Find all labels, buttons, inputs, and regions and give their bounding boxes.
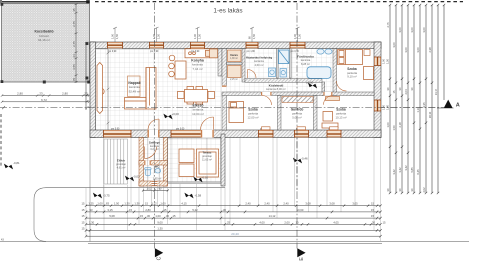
level marker -0,75 <box>93 193 110 199</box>
svg-text:15: 15 <box>371 202 374 206</box>
party wall door opening <box>222 86 227 94</box>
svg-text:4,05: 4,05 <box>333 220 339 224</box>
svg-text:2,02: 2,02 <box>422 187 426 193</box>
svg-text:1,30: 1,30 <box>124 202 130 206</box>
svg-text:83: 83 <box>106 202 109 206</box>
svg-text:30: 30 <box>166 214 169 218</box>
svg-text:15: 15 <box>383 220 386 224</box>
svg-text:2,80: 2,80 <box>17 92 23 96</box>
bed top-right room <box>338 50 363 65</box>
svg-text:24: 24 <box>72 54 76 58</box>
svg-text:9,00: 9,00 <box>157 220 163 224</box>
bottom dim row R4 <box>82 220 386 225</box>
svg-text:Előtér: Előtér <box>117 159 126 163</box>
svg-text:kerámia 8,00 m²: kerámia 8,00 m² <box>266 87 286 91</box>
bottom dim row R6 grand total 20,40 <box>85 232 382 237</box>
svg-text:2,02: 2,02 <box>147 188 152 191</box>
svg-text:-0,02: -0,02 <box>133 175 140 179</box>
room label: Konyha <box>191 59 204 71</box>
terrace border <box>168 138 222 182</box>
svg-text:1,50: 1,50 <box>114 202 120 206</box>
interior wall: corridor bottom long <box>222 92 374 96</box>
svg-text:2,38: 2,38 <box>428 47 432 53</box>
window south wall S3 <box>259 130 274 138</box>
svg-text:3,55: 3,55 <box>72 64 76 70</box>
room label: Kondicionalo <box>297 55 314 66</box>
right dim column labels (rotated) <box>386 22 438 193</box>
svg-text:1,00: 1,00 <box>382 58 386 64</box>
svg-text:2,40: 2,40 <box>245 202 251 206</box>
top dashed utility line <box>95 1 463 3</box>
window axis tick W3 <box>193 27 201 42</box>
svg-text:15: 15 <box>140 214 143 218</box>
bath sinks <box>317 49 332 54</box>
terrace table <box>197 149 219 177</box>
window top wall W5 <box>290 42 305 49</box>
entrance deck stripes <box>104 139 128 184</box>
dimension row below carport (2,80 / 23 / 2,80 / 23) <box>1 92 90 104</box>
svg-text:1,00: 1,00 <box>193 33 197 39</box>
section line C vertical dash-dot <box>154 3 156 249</box>
svg-text:4,15: 4,15 <box>181 202 187 206</box>
interior wall: bedroom divider 1 <box>278 96 282 131</box>
window axis tick W4 <box>248 27 256 42</box>
carport post bottom-left <box>1 80 4 83</box>
interior wall: kitchen right <box>218 49 222 77</box>
svg-text:14,12: 14,12 <box>269 214 276 218</box>
bed bottom room 1 <box>229 102 244 123</box>
floor tile: wc <box>144 165 164 181</box>
window top wall W1 <box>108 42 123 49</box>
svg-text:13,17: 13,17 <box>434 88 438 95</box>
svg-text:6,45: 6,45 <box>416 169 420 175</box>
svg-text:93: 93 <box>90 208 93 212</box>
bedroom door arc (top right) <box>337 81 347 91</box>
svg-text:3,00: 3,00 <box>416 47 420 53</box>
floor tile: corridor <box>242 82 322 92</box>
svg-text:25: 25 <box>227 220 230 224</box>
room label: Nappali <box>128 81 140 93</box>
level marker +0,00 nappali <box>163 112 179 119</box>
carport post bottom-mid <box>43 81 46 84</box>
room label: Kamra <box>230 54 238 81</box>
svg-text:1,12: 1,12 <box>151 202 157 206</box>
carport label <box>34 30 53 43</box>
window south wall S4 <box>295 130 309 138</box>
svg-text:3,42: 3,42 <box>404 165 408 171</box>
bottom dim row R2 <box>82 208 382 213</box>
level marker -0,02 wc porch <box>125 175 140 182</box>
svg-text:8,28 m²: 8,28 m² <box>301 62 310 66</box>
svg-text:15: 15 <box>371 214 374 218</box>
svg-text:-0,81: -0,81 <box>13 161 20 165</box>
bench bottom room 2 <box>322 123 338 128</box>
svg-text:15: 15 <box>82 208 85 212</box>
svg-text:12,00 m²: 12,00 m² <box>247 116 258 120</box>
svg-text:C: C <box>157 256 163 260</box>
radiator living west <box>97 63 104 114</box>
svg-text:3,05: 3,05 <box>352 202 358 206</box>
wc south small window <box>151 181 157 186</box>
round table + chairs <box>169 55 186 79</box>
room label: Haztartasi helyiseg <box>246 56 272 67</box>
boundary corner post square <box>86 0 90 3</box>
svg-text:pm 0,00: pm 0,00 <box>176 128 185 130</box>
interior wall: corridor top <box>245 79 322 82</box>
right wall window labels E2 <box>382 104 390 110</box>
svg-text:4,61 m²: 4,61 m² <box>117 166 126 170</box>
svg-text:2,75: 2,75 <box>386 22 390 28</box>
right dim column lines <box>390 5 444 193</box>
svg-text:20,40: 20,40 <box>231 232 239 236</box>
svg-text:15: 15 <box>371 208 374 212</box>
svg-text:1,25: 1,25 <box>88 202 94 206</box>
wc bottom wall (brick) <box>139 181 168 186</box>
outer wall: left <box>90 42 96 138</box>
radiator under window S5 <box>330 127 339 130</box>
svg-text:1,50: 1,50 <box>297 33 301 39</box>
svg-text:1,30: 1,30 <box>157 226 163 230</box>
svg-text:10,13 m²: 10,13 m² <box>335 116 346 120</box>
svg-text:biztosít: biztosít <box>39 34 49 38</box>
room label: Etkezo <box>192 103 204 116</box>
radiator under window S4 <box>297 127 306 130</box>
svg-text:1-es lakás: 1-es lakás <box>213 8 242 15</box>
svg-text:5,85: 5,85 <box>410 167 414 173</box>
svg-text:-0,02: -0,02 <box>202 176 209 180</box>
svg-text:2,04: 2,04 <box>404 89 408 95</box>
svg-text:Közlekedő: Közlekedő <box>269 84 284 88</box>
svg-text:Kamra: Kamra <box>230 54 238 57</box>
svg-text:30: 30 <box>147 214 150 218</box>
svg-text:15: 15 <box>82 202 85 206</box>
cabinet top of room3 <box>326 97 340 101</box>
window south wall S1 (nappali) <box>104 130 132 138</box>
carport post top-left <box>1 3 4 6</box>
svg-text:kerámia: kerámia <box>254 59 264 63</box>
level marker -0,58 <box>184 193 201 199</box>
mini dims below wing <box>142 188 169 192</box>
svg-text:1,00: 1,00 <box>155 214 161 218</box>
svg-text:15: 15 <box>173 214 176 218</box>
svg-text:1,50: 1,50 <box>252 33 256 39</box>
svg-text:13,04 m²: 13,04 m² <box>192 112 204 116</box>
svg-text:3,08: 3,08 <box>305 202 311 206</box>
window top wall W4 <box>246 42 258 49</box>
svg-text:1,30: 1,30 <box>89 220 95 224</box>
desk top-right room <box>364 67 374 80</box>
kamra shelves upper <box>228 50 242 62</box>
kitchen tall cabinet near party wall <box>210 49 218 58</box>
svg-text:6,72: 6,72 <box>41 98 47 102</box>
right dim column ticks <box>389 4 445 194</box>
svg-text:30: 30 <box>223 208 226 212</box>
room label: Szoba bottom 2 <box>335 108 346 120</box>
wc door opening in divider <box>144 160 151 165</box>
window south wall S5 <box>327 130 341 138</box>
svg-text:pm 0,90: pm 0,90 <box>111 128 120 130</box>
level marker -0,02 terrace <box>193 176 208 183</box>
kamra shelves lower <box>228 66 242 78</box>
floor tile: living/kitchen/dining <box>96 49 223 131</box>
svg-text:23: 23 <box>39 92 43 96</box>
interior dim chain x108 <box>107 49 110 130</box>
svg-text:9,10 m²: 9,10 m² <box>347 75 357 79</box>
svg-text:±0,00: ±0,00 <box>306 81 314 85</box>
svg-text:1,50: 1,50 <box>386 58 390 64</box>
sofa L-shape <box>125 68 157 110</box>
svg-text:Terasz: Terasz <box>203 151 212 155</box>
svg-text:1,00: 1,00 <box>382 104 386 110</box>
property boundary top heavy line <box>2 1 89 3</box>
svg-text:1,50: 1,50 <box>115 33 119 39</box>
svg-text:-0,46: -0,46 <box>301 157 308 161</box>
svg-text:2,75: 2,75 <box>72 21 76 27</box>
szelfogo block wall left (brick) <box>139 138 144 187</box>
svg-text:5,22: 5,22 <box>192 208 198 212</box>
bottom dim row R5 total <box>82 226 382 231</box>
window right wall E1 <box>374 57 381 66</box>
window top wall W2 <box>150 42 164 49</box>
corridor door arc 3 <box>323 92 332 96</box>
svg-text:-0,58: -0,58 <box>195 194 202 198</box>
svg-text:pm 0,90: pm 0,90 <box>108 51 117 53</box>
interior wall: party wall <box>222 49 227 131</box>
kitchen counter <box>185 49 217 58</box>
svg-text:kerámia: kerámia <box>301 58 311 62</box>
svg-text:3,08: 3,08 <box>329 202 335 206</box>
interior wall: bedroom divider 2 <box>314 96 318 131</box>
terrace right wall <box>221 134 225 186</box>
svg-text:3,00: 3,00 <box>392 42 396 48</box>
level marker -0,46 top of E line <box>293 157 308 164</box>
interior wall: shower/kondi divider <box>290 49 292 79</box>
svg-text:3,00: 3,00 <box>398 27 402 33</box>
szelfogo door leaf+arc <box>145 147 157 159</box>
left boundary dashed <box>0 114 2 166</box>
driveway edge rounded corner <box>34 188 225 242</box>
south wall door opening nappali <box>148 130 160 138</box>
section line A-A left tick <box>2 106 5 109</box>
svg-text:1,50: 1,50 <box>197 33 201 39</box>
nappali door to szelfogo arc <box>148 119 159 130</box>
dining south door arc <box>201 117 214 130</box>
bottom dim row R3 <box>82 214 382 219</box>
svg-text:1,38 m²: 1,38 m² <box>230 57 238 60</box>
svg-text:10,60: 10,60 <box>297 208 304 212</box>
terrace lounge chair 2 <box>179 164 194 177</box>
level marker -0,81 <box>4 161 20 169</box>
section line E overlay through building <box>296 40 298 192</box>
room label: Eloter <box>116 159 127 170</box>
svg-text:30: 30 <box>372 220 375 224</box>
room label: WC <box>153 165 162 181</box>
svg-text:Háztartási helyiség: Háztartási helyiség <box>246 56 272 60</box>
svg-text:gresolap: gresolap <box>116 162 127 166</box>
svg-text:gresolap: gresolap <box>202 154 213 158</box>
svg-text:2,40: 2,40 <box>264 202 270 206</box>
svg-text:A: A <box>456 103 460 109</box>
svg-text:Fürdőszoba: Fürdőszoba <box>297 55 314 59</box>
floor tile: terrace <box>168 138 222 182</box>
outer wall: south <box>90 130 381 138</box>
svg-text:pm 1,80: pm 1,80 <box>247 51 256 53</box>
extension lines from plan to bottom dims <box>86 42 381 241</box>
svg-text:3,00: 3,00 <box>404 47 408 53</box>
svg-text:1,65 m²: 1,65 m² <box>153 178 162 181</box>
interior wall: kamra right <box>242 49 245 83</box>
svg-text:3,00: 3,00 <box>410 27 414 33</box>
svg-text:1,50: 1,50 <box>392 125 396 131</box>
svg-text:1,00: 1,00 <box>152 33 156 39</box>
carport hatched slab <box>2 4 90 83</box>
interior face line below top wall <box>96 49 223 51</box>
svg-text:15: 15 <box>145 202 148 206</box>
interior wall: utility/shower divider <box>277 49 279 79</box>
svg-text:3,35: 3,35 <box>422 102 426 108</box>
south wall door opening dining <box>201 130 214 138</box>
floor tile: szelfogo <box>144 138 164 161</box>
section line A-A overlay through building <box>88 107 444 109</box>
desk bottom room 2 <box>323 112 333 122</box>
svg-text:1,30: 1,30 <box>134 202 140 206</box>
left wall exterior dim ticks <box>86 43 89 111</box>
window axis tick W1 <box>111 27 119 42</box>
svg-text:2,00: 2,00 <box>284 220 290 224</box>
window south wall S2 (terrace slider) <box>171 130 207 138</box>
level marker +-0,00 bathroom <box>306 81 317 89</box>
terrace bottom edge lines <box>168 182 222 184</box>
svg-text:1,80: 1,80 <box>386 104 390 110</box>
svg-text:E: E <box>299 257 305 261</box>
wc sink <box>155 169 161 173</box>
szelfogo/wc divider wall (brick) <box>139 161 168 166</box>
section line E vertical dash-dot <box>296 3 298 249</box>
parapet texts top windows <box>108 51 300 53</box>
window right wall E2 <box>374 100 381 111</box>
room label: Szoba bottom 1 <box>247 108 258 120</box>
carport edge extension line <box>89 83 91 242</box>
site boundary line 2 <box>88 243 382 245</box>
svg-text:5,08: 5,08 <box>109 214 115 218</box>
wardrobe gardrob <box>282 97 313 103</box>
property boundary left short line <box>0 0 2 4</box>
svg-text:32,49 m²: 32,49 m² <box>129 89 141 93</box>
svg-text:3,42: 3,42 <box>392 169 396 175</box>
svg-text:18,10: 18,10 <box>428 111 432 118</box>
interior wall: bedroom left (top-right room) <box>333 49 337 96</box>
room label: Terasz <box>202 151 213 162</box>
corridor door arc 2 <box>261 92 272 96</box>
section arrow E <box>297 248 305 257</box>
interior wall: kamra divider <box>227 63 243 65</box>
room label: Kozlekedo <box>266 84 286 92</box>
svg-text:4,60 m²: 4,60 m² <box>254 63 263 67</box>
section line A-A horizontal dash-dot <box>0 107 444 109</box>
right wall window labels E1 <box>382 58 390 64</box>
carport post right-mid <box>85 42 88 45</box>
svg-text:+0,00: +0,00 <box>172 112 180 116</box>
window axis tick W5 <box>293 27 301 42</box>
site boundary line 1 <box>0 241 469 243</box>
svg-text:70: 70 <box>72 78 76 82</box>
szelfogo block wall right (brick) <box>164 138 168 187</box>
room label: Szelfogo <box>149 141 161 152</box>
svg-text:3,42: 3,42 <box>398 167 402 173</box>
svg-text:1,00: 1,00 <box>97 202 103 206</box>
svg-text:1,50: 1,50 <box>156 33 160 39</box>
window axis tick W2 <box>152 27 160 42</box>
utility washer 1 <box>269 68 276 77</box>
svg-text:15: 15 <box>82 220 85 224</box>
bathtub <box>307 67 331 79</box>
svg-text:35: 35 <box>72 8 76 12</box>
svg-text:10: 10 <box>296 220 299 224</box>
svg-text:pm 0,90: pm 0,90 <box>150 51 159 53</box>
window top wall W3 <box>191 42 205 49</box>
svg-text:15: 15 <box>164 208 167 212</box>
svg-text:1,00: 1,00 <box>160 202 166 206</box>
corridor door arc 1 <box>248 70 257 79</box>
radiator under window S3 <box>262 127 271 130</box>
section arrow C <box>155 248 163 257</box>
svg-text:1,00: 1,00 <box>386 122 390 128</box>
svg-text:2,80: 2,80 <box>145 208 151 212</box>
carport dimension numbers (rotated) <box>72 8 76 81</box>
parapet texts south windows <box>111 128 338 130</box>
carport interior vertical dimension line <box>75 4 78 84</box>
section line C overlay through building <box>154 40 156 192</box>
svg-text:2,25 m²: 2,25 m² <box>230 78 238 81</box>
terrace lounge chair 1 <box>179 149 194 163</box>
svg-text:7,44 m²: 7,44 m² <box>192 67 202 71</box>
interior wall: corridor right stub <box>322 82 325 96</box>
carport post right-low <box>85 77 88 80</box>
utility washer 2 <box>280 69 287 78</box>
svg-text:2,80: 2,80 <box>62 92 68 96</box>
armchair nappali <box>128 76 141 97</box>
section arrow A <box>437 107 454 109</box>
svg-text:15: 15 <box>82 214 85 218</box>
svg-text:1,00: 1,00 <box>293 33 297 39</box>
room label: Gardrob <box>291 108 304 120</box>
svg-text:1,00: 1,00 <box>111 33 115 39</box>
wc toilet <box>145 168 151 176</box>
outer wall: right <box>374 42 381 138</box>
room label: Szoba top right <box>347 67 358 79</box>
svg-text:15: 15 <box>129 208 132 212</box>
svg-text:pm 0,90: pm 0,90 <box>291 51 300 53</box>
svg-text:2,40: 2,40 <box>283 202 289 206</box>
floor white: bedrooms <box>227 96 375 131</box>
svg-text:pm 0,90: pm 0,90 <box>191 51 200 53</box>
nightstand top-right room <box>364 50 370 56</box>
svg-text:4,00: 4,00 <box>259 220 265 224</box>
svg-text:2,18: 2,18 <box>398 122 402 128</box>
svg-text:3,15: 3,15 <box>107 208 113 212</box>
svg-text:34,16 m²: 34,16 m² <box>38 38 50 42</box>
svg-text:3,00: 3,00 <box>422 27 426 33</box>
dining table + chairs <box>178 87 215 105</box>
outer wall: top <box>90 42 381 49</box>
shower <box>279 50 290 64</box>
floor tile: utility+bath top rooms <box>227 49 334 93</box>
carport post bottom-right corner <box>87 81 90 84</box>
svg-text:WC: WC <box>155 165 160 169</box>
bottom dim row R1 <box>82 202 382 207</box>
svg-text:2,75: 2,75 <box>72 41 76 47</box>
svg-text:15: 15 <box>82 226 85 230</box>
